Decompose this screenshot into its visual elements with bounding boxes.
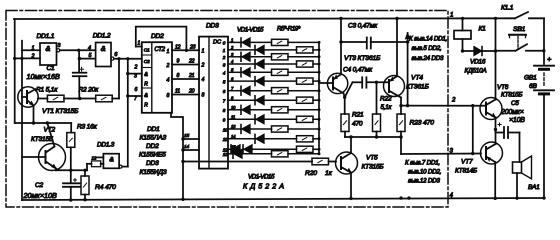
switch SB1 push button [516,44,527,51]
wire stub left rail to bus [15,57,22,59]
wire VT1 base [22,96,27,98]
svg-text:выв.12 DD3: выв.12 DD3 [408,178,440,185]
svg-text:1: 1 [138,41,141,47]
wire DD2 pin1 input from feedback bridge [136,46,142,48]
svg-text:6В: 6В [529,83,537,90]
svg-text:R1 5,1к: R1 5,1к [36,86,58,93]
wire DD1.2 input pin 5 from C1 riser [79,58,95,60]
svg-text:С2: С2 [144,59,150,65]
svg-text:&: & [101,44,106,53]
svg-text:DD2: DD2 [151,33,164,40]
svg-text:1: 1 [202,48,205,54]
svg-text:DC: DC [213,40,222,46]
wire row y123 to R3 [15,122,71,124]
capacitor C3 0.47mk [341,41,367,43]
svg-text:DD2: DD2 [146,143,159,150]
svg-text:КТ315Б: КТ315Б [362,164,385,171]
wire DD1.3 output pin 11 riser [122,166,128,168]
svg-text:20: 20 [188,89,195,95]
wire to DD2 R inputs [128,73,142,75]
op-amp DD1.2 NAND gate [96,43,111,67]
svg-text:1: 1 [450,12,453,19]
wire DD1.2 output pin 6 [114,58,142,60]
wire VT2 base [22,156,46,158]
svg-text:DD1.1: DD1.1 [37,33,55,40]
svg-text:С5: С5 [511,100,519,107]
svg-text:К выв.7 DD1,: К выв.7 DD1, [405,160,440,167]
svg-text:1: 1 [167,49,170,55]
svg-text:DD1: DD1 [147,126,160,133]
transistor VT2 KT315B [39,144,66,171]
wire SB1 branch [495,18,497,50]
diode VD5 and resistor R9 row [228,71,241,73]
diode VD8 and resistor R12 row [228,99,255,101]
wire VT7 collector [487,144,496,149]
svg-text:20мк×10В: 20мк×10В [23,191,58,200]
diode VD1 and resistor R5 row [228,41,241,43]
svg-text:21: 21 [188,73,195,79]
wire junction riser between base wires [472,106,474,154]
transistor VT3 KT361B [327,73,347,93]
wire VT3 base from bus [319,82,333,84]
diode VD3 and resistor R7 row [228,56,241,58]
op-amp DD3 decoder K155ID1 [199,37,228,169]
wire VT2 emitter to y170 wire [47,162,57,169]
wire left vertical bus x22 [21,41,23,200]
svg-text:DD1.3: DD1.3 [97,142,115,149]
svg-text:22: 22 [188,59,195,65]
svg-text:VТ1 КТ315Б: VТ1 КТ315Б [42,108,79,115]
wire VT3 emitter to top rail [334,74,341,79]
wire DD2 out pin9 to DD3 pin22 [172,64,199,66]
wire VT1 emitter to y123 wire [28,101,34,106]
wire ground bottom rail [22,198,543,200]
diode VD11 and resistor R15 row [228,128,241,130]
capacitor C1 10mk x 16V [78,50,80,72]
diode VD10 and resistor R14 row [228,118,255,120]
svg-text:R2 20к: R2 20к [79,86,100,93]
svg-text:VТ7: VТ7 [461,159,473,166]
svg-text:VD1-VD15: VD1-VD15 [237,27,264,34]
wire +supply top rail [14,17,515,20]
svg-text:4: 4 [202,77,205,83]
capacitor C4 0.47mk [353,81,362,83]
svg-text:11: 11 [175,89,180,95]
svg-text:×10В: ×10В [509,117,525,124]
svg-text:С1: С1 [144,48,150,54]
resistor R4 470 [84,170,86,176]
svg-text:КТ361Б: КТ361Б [406,84,429,91]
svg-text:5,1к: 5,1к [381,104,393,111]
svg-text:VТ3 КТ361Б: VТ3 КТ361Б [344,55,381,62]
transistor VT5 KT315B [336,152,358,174]
op-amp DD1.3 NAND gate [103,154,119,169]
svg-text:DD3: DD3 [206,23,219,30]
svg-text:К1.1: К1.1 [501,5,514,12]
svg-text:R3 16к: R3 16к [77,124,98,131]
svg-text:DD3: DD3 [146,160,159,167]
wire DD2 bottom pin5 to DD3 pins 15,14 and R20 [171,113,183,162]
diode VD9 and resistor R13 row [228,109,241,111]
svg-text:13: 13 [223,152,228,157]
wire node to VT7 base through pin 3 [401,153,481,156]
resistor R22 5.1k [376,82,378,114]
resistor R2 20k [96,95,113,102]
svg-text:4: 4 [88,45,91,51]
wire DD1.1 output pin 3 to node A [60,49,96,51]
svg-text:выв.24 DD3: выв.24 DD3 [412,55,444,62]
wire VT6 emitter [487,113,496,118]
svg-text:К155ЛА3: К155ЛА3 [140,135,167,142]
svg-text:К155ИД3: К155ИД3 [140,169,167,176]
svg-text:R23 470: R23 470 [410,120,435,127]
wire VT3 collector to R21 and C4 node [334,88,344,94]
svg-text:К1: К1 [479,26,487,33]
svg-text:8: 8 [202,93,205,99]
svg-text:КД522А: КД522А [243,182,287,191]
svg-text:9: 9 [177,59,180,65]
wire battery right vertical bottom [543,96,545,199]
capacitor C5 200mk x 10V [496,132,504,134]
svg-text:VD16: VD16 [470,59,486,66]
svg-text:8: 8 [167,93,170,99]
wire VT7 emitter to ground [487,157,495,162]
wire DD2 pin5 row to R20 [183,161,312,163]
svg-text:1: 1 [32,45,35,51]
wire DD2 out pin12 to DD3 in pin23 [172,49,199,51]
svg-text:ВА1: ВА1 [528,184,540,191]
svg-text:С3 0,47мк: С3 0,47мк [348,23,378,30]
svg-text:VТ6: VТ6 [497,84,509,91]
diode VD15 and resistor R18 row [228,153,233,155]
wire VT4 collector to VT6 base through pin 2 [401,105,481,107]
dash-dot enclosure border [6,11,448,208]
svg-text:15: 15 [184,133,189,139]
wire DD1.3 inputs [97,156,103,158]
svg-text:2: 2 [166,63,170,69]
wire VT4 collector to node B [390,91,402,98]
svg-text:СТ2: СТ2 [154,46,165,53]
svg-text:4: 4 [167,78,170,84]
svg-text:200мк×: 200мк× [500,109,524,116]
svg-text:С1: С1 [47,65,56,72]
svg-text:14: 14 [184,144,189,150]
svg-text:12: 12 [175,45,181,51]
diode VD14 and resistor R17 row [228,148,231,150]
resistor R3 16k [70,123,72,133]
wire top rail right of K1.1 contact [529,17,544,19]
wire feedback bridge DD2 pin12 to pin1 [136,27,187,51]
svg-text:470: 470 [352,121,363,128]
op-amp DD1.1 NAND gate [40,43,57,65]
svg-text:2: 2 [201,63,205,69]
wire row y170.3 [56,169,87,171]
resistor R21 470 [341,114,349,132]
svg-text:R21: R21 [352,112,364,119]
resistor R23 470 [400,106,402,114]
DD2 input cells [142,54,152,56]
wire R21-R22-R23 bottoms row y137 [345,136,401,138]
resistor R20 1k [312,158,329,165]
wire battery right vertical top [543,18,545,64]
svg-text:&: & [45,44,50,53]
wire VT5 collector [342,153,351,159]
svg-text:выв.10 DD2,: выв.10 DD2, [408,169,441,176]
transistor VT7 KT814B [481,142,503,164]
svg-text:С2: С2 [35,182,44,189]
svg-text:К155ИЕ5: К155ИЕ5 [139,152,166,159]
svg-text:R: R [144,82,148,88]
node A junction [77,49,80,52]
svg-text:2: 2 [31,54,35,60]
svg-text:R20: R20 [305,170,317,177]
transistor VT6 KT815B [480,98,502,120]
wire VT4 emitter to top rail [390,76,398,81]
capacitor C2 20mk x 10V electrolytic [70,170,72,183]
svg-text:R22: R22 [380,96,392,103]
svg-text:&: & [144,93,148,99]
svg-text:VТ2: VТ2 [44,127,56,134]
svg-text:R5*-R19*: R5*-R19* [277,26,301,33]
svg-text:3: 3 [58,43,61,49]
svg-text:10мк×16В: 10мк×16В [27,72,61,81]
diode VD16 KD510A [463,50,475,52]
svg-text:&: & [144,72,148,78]
svg-text:6: 6 [135,87,138,93]
wire resistor bus to VT3 base [318,42,320,153]
wire VT6 collector riser [495,51,497,100]
diode VD12 and resistor R16 row [228,138,255,140]
relay coil K1 [461,17,464,20]
diode VD2 and resistor R6 row [228,49,255,51]
small input box [86,164,88,171]
resistor R1 5.1k [38,98,48,100]
wire VT2 collector to junction y123 [47,147,55,153]
svg-text:К выв.14 DD1,: К выв.14 DD1, [409,36,447,43]
wire DD2 out pin8 to DD3 pin21 [172,78,199,80]
svg-text:SВ1: SВ1 [513,26,526,33]
speaker BA1 [513,162,522,173]
svg-text:КД510А: КД510А [465,68,487,75]
switch contact K1.1 in top rail [494,17,497,20]
svg-text:12: 12 [92,155,97,160]
svg-text:10: 10 [223,127,228,132]
svg-text:выв.5 DD2,: выв.5 DD2, [412,45,442,52]
svg-text:8: 8 [177,73,180,79]
svg-text:DD1.2: DD1.2 [93,33,111,40]
wire VT6 base from pin2 wire [481,105,486,107]
svg-text:1к: 1к [325,170,333,177]
wire left vertical from top rail [14,19,16,123]
svg-text:КТ814Б: КТ814Б [455,168,478,175]
svg-text:2: 2 [134,65,138,71]
svg-text:R4 470: R4 470 [95,184,116,191]
wire DD2 out pin11 to DD3 pin20 [172,94,199,96]
svg-text:КТ315Б: КТ315Б [31,136,54,143]
wire DD1.1 input pins 1,2 [22,49,40,51]
svg-text:КТ815Б: КТ815Б [501,92,522,99]
transistor VT1 KT315B [18,87,38,107]
wire power feed riser from VT4 collector [407,33,409,106]
op-amp DD2 counter K155IE5 [142,42,172,113]
transistor VT4 KT361B [384,76,405,97]
svg-text:VD1-VD15: VD1-VD15 [248,174,275,181]
svg-text:R: R [144,103,148,109]
svg-text:VТ4: VТ4 [411,75,423,82]
svg-text:С4 0,47мк: С4 0,47мк [343,67,373,74]
svg-text:23: 23 [189,45,196,51]
wire C5 to speaker [519,133,521,163]
svg-text:11: 11 [223,137,228,142]
diode VD6 and resistor R10 row [228,80,255,82]
svg-text:3: 3 [134,74,137,80]
wire R23 bottom to VT7 base row [400,132,402,155]
svg-text:GВ1: GВ1 [524,75,537,82]
svg-text:VТ5: VТ5 [366,155,378,162]
wire VT5 emitter to ground rail [342,168,351,173]
diode VD4 and resistor R8 row [228,63,255,65]
wire VT1 collector [28,89,36,93]
diode VD7 and resistor R11 row [228,90,241,92]
